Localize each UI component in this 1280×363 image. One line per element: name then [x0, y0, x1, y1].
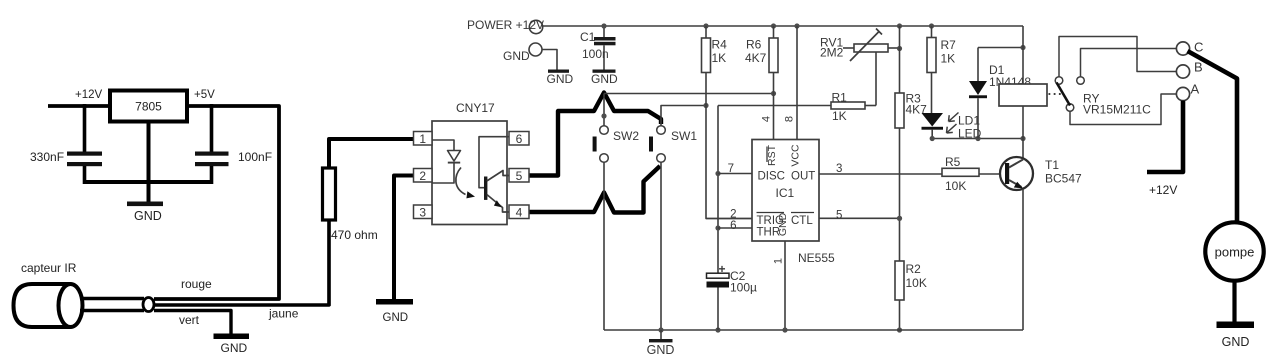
svg-text:1: 1 [773, 258, 785, 264]
svg-text:B: B [1194, 60, 1203, 75]
svg-text:POWER +12V: POWER +12V [467, 18, 544, 32]
svg-text:LD1: LD1 [958, 114, 980, 128]
svg-text:1K: 1K [712, 51, 727, 65]
svg-text:2: 2 [419, 169, 426, 183]
svg-text:CNY17: CNY17 [456, 101, 495, 115]
svg-text:DISC: DISC [758, 171, 785, 183]
svg-text:vert: vert [179, 313, 200, 327]
svg-text:R1: R1 [832, 91, 848, 105]
svg-text:THR: THR [757, 227, 781, 239]
svg-text:330nF: 330nF [30, 150, 64, 164]
svg-text:+: + [719, 262, 726, 276]
svg-text:rouge: rouge [181, 277, 212, 291]
svg-text:GND: GND [134, 209, 162, 223]
svg-text:VCC: VCC [790, 144, 802, 167]
svg-text:R4: R4 [712, 38, 728, 52]
svg-text:R2: R2 [906, 262, 922, 276]
svg-text:IC1: IC1 [776, 186, 795, 200]
svg-text:1: 1 [419, 132, 426, 146]
svg-text:2M2: 2M2 [820, 46, 844, 60]
svg-text:pompe: pompe [1215, 245, 1255, 260]
svg-text:GND: GND [591, 72, 618, 86]
svg-text:6: 6 [730, 220, 736, 232]
svg-text:GND: GND [221, 341, 248, 355]
svg-text:C1: C1 [580, 30, 596, 44]
svg-text:1K: 1K [832, 109, 847, 123]
svg-text:7: 7 [728, 163, 734, 175]
svg-text:A: A [1191, 82, 1200, 97]
svg-text:1K: 1K [941, 52, 956, 66]
svg-text:6: 6 [516, 132, 523, 146]
svg-text:jaune: jaune [268, 307, 299, 321]
svg-text:GND: GND [547, 72, 574, 86]
svg-text:100nF: 100nF [238, 150, 272, 164]
svg-text:C: C [1194, 40, 1203, 55]
svg-text:5: 5 [836, 209, 842, 221]
svg-text:R6: R6 [746, 38, 762, 52]
svg-text:10K: 10K [906, 276, 927, 290]
svg-text:T1: T1 [1045, 158, 1059, 172]
svg-text:RST: RST [766, 144, 778, 166]
svg-text:+5V: +5V [194, 89, 215, 101]
svg-text:GND: GND [647, 343, 675, 357]
svg-text:+12V: +12V [1149, 183, 1177, 197]
svg-text:4: 4 [761, 116, 773, 122]
svg-text:CTL: CTL [791, 215, 813, 227]
svg-text:SW2: SW2 [613, 129, 639, 143]
svg-text:NE555: NE555 [798, 251, 835, 265]
svg-text:3: 3 [419, 205, 426, 219]
svg-text:470 ohm: 470 ohm [331, 228, 378, 242]
svg-text:VR15M211C: VR15M211C [1083, 103, 1151, 117]
svg-text:100n: 100n [582, 47, 609, 61]
svg-text:4K7: 4K7 [745, 51, 767, 65]
svg-text:GND: GND [503, 49, 530, 63]
svg-text:100µ: 100µ [730, 281, 757, 295]
svg-text:GND: GND [383, 312, 409, 324]
svg-text:OUT: OUT [791, 171, 815, 183]
svg-text:8: 8 [784, 116, 796, 122]
svg-text:BC547: BC547 [1045, 172, 1082, 186]
svg-text:2: 2 [730, 208, 736, 220]
svg-text:5: 5 [516, 169, 523, 183]
svg-text:10K: 10K [945, 179, 966, 193]
svg-text:R5: R5 [945, 155, 961, 169]
svg-text:4: 4 [516, 205, 523, 219]
svg-text:7805: 7805 [135, 100, 162, 114]
svg-text:+12V: +12V [75, 89, 103, 101]
svg-text:R7: R7 [941, 38, 957, 52]
svg-text:GND: GND [1222, 335, 1250, 349]
svg-text:SW1: SW1 [671, 129, 697, 143]
svg-text:capteur IR: capteur IR [21, 261, 77, 275]
